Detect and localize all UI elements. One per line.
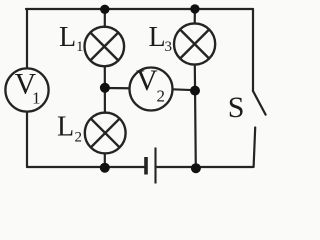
svg-text:1: 1 [32,89,41,108]
lamp L1 [85,27,125,67]
junction node mid-left [100,83,110,93]
wire left lower [26,112,28,168]
wire bottom right [157,166,254,168]
svg-text:L: L [57,112,74,143]
switch S blade [253,91,266,115]
svg-text:V: V [136,64,158,97]
junction node top-left [100,5,109,14]
lamp L2 [85,113,126,154]
wire bottom left [27,166,144,168]
svg-text:L: L [59,22,76,53]
wire L1-L2 middle [104,67,106,113]
battery cell [146,148,156,184]
label L2 [57,112,82,146]
wire L2 bottom stub [104,154,106,168]
junction node bottom-left [100,163,110,173]
wire L3 to bottom [195,65,196,168]
svg-text:2: 2 [75,130,83,146]
wire L1 top stub [104,9,106,27]
svg-text:2: 2 [157,87,166,106]
junction node mid-right [190,86,200,96]
wire L3 top stub [194,9,196,24]
wire V2 right stub [172,88,195,91]
svg-text:3: 3 [165,39,173,55]
lamp L3 [174,23,215,64]
label L3 [149,22,173,55]
junction node bottom-right [191,163,201,173]
wire V2 left stub [105,87,130,90]
label L1 [59,22,84,55]
wire left upper [26,9,28,69]
voltmeter V1 [5,68,48,112]
wire right upper [252,9,254,91]
svg-text:L: L [149,22,166,53]
wire top [26,8,253,10]
voltmeter V2 [130,64,173,111]
svg-text:S: S [228,91,245,124]
junction node top-right [190,4,199,13]
switch S lower contact [254,128,256,168]
svg-text:1: 1 [76,39,84,55]
